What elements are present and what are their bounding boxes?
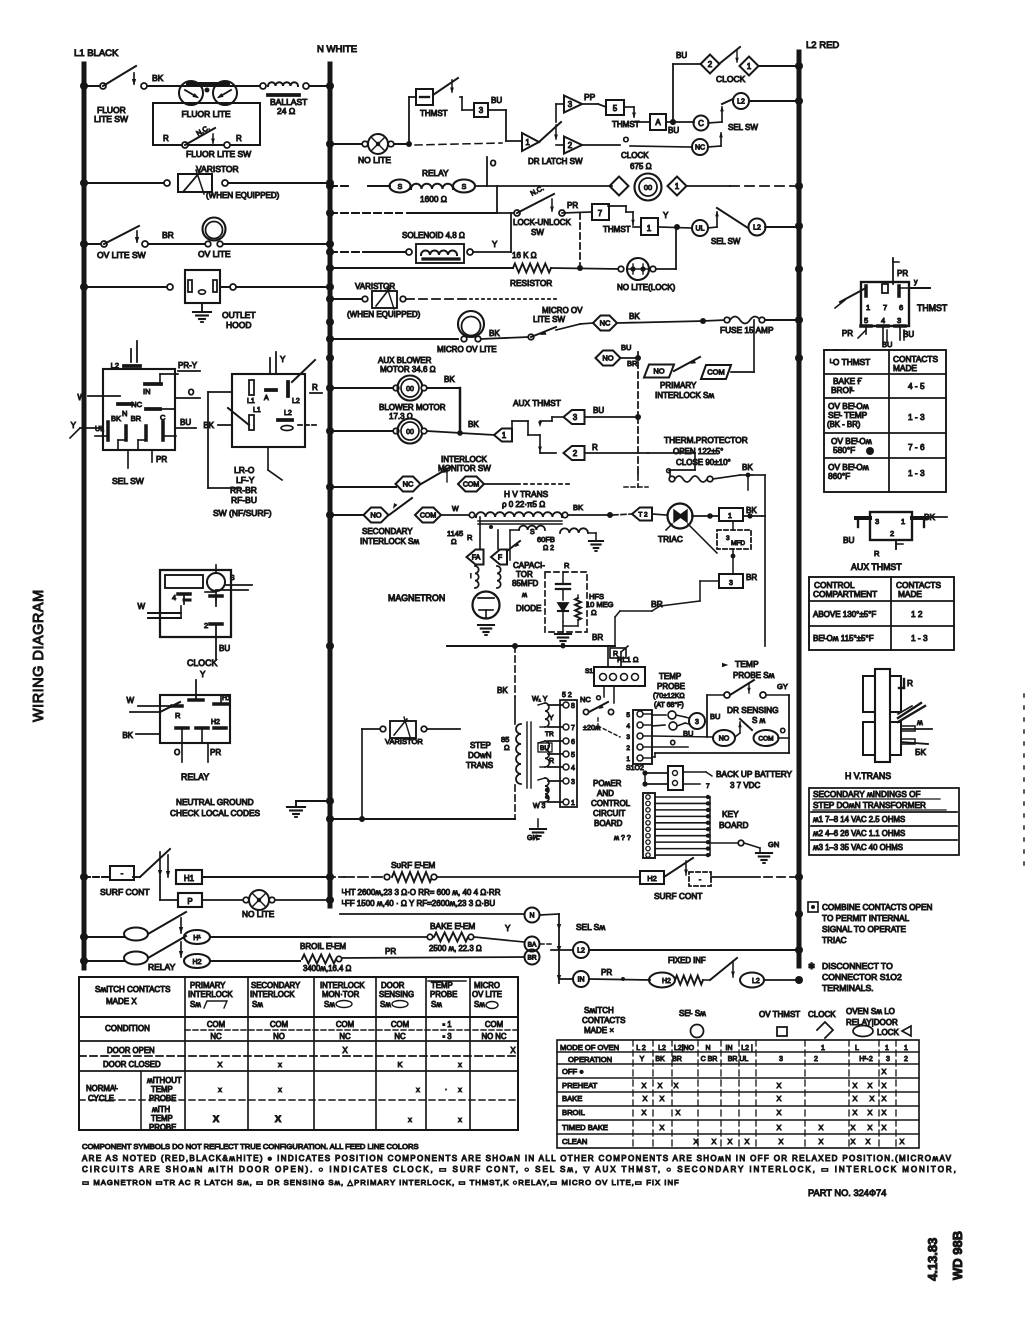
svg-text:1: 1 (571, 800, 575, 807)
label HFS (586, 592, 614, 617)
label R tap (549, 758, 554, 765)
svg-text:W: W (77, 393, 85, 402)
label BU (176, 418, 196, 428)
circle BA (525, 937, 540, 952)
label elem ratings 2 (342, 899, 495, 908)
wire aux blower right (427, 388, 463, 436)
label CAPACITOR (512, 561, 545, 588)
hexagon NC micro (593, 316, 617, 331)
thmst pin6 (899, 279, 930, 296)
junction (326, 354, 334, 362)
wire hv BK lead (901, 739, 928, 757)
wire solenoid right (473, 213, 511, 252)
wire temp sw left (707, 694, 724, 696)
svg-text:BOARD: BOARD (719, 820, 749, 830)
svg-text:BU: BU (843, 535, 855, 545)
svg-text:NO: NO (719, 736, 730, 743)
svg-text:ОVEN Sʍ LО: ОVEN Sʍ LО (846, 1007, 895, 1016)
svg-text:RELAY: RELAY (181, 772, 209, 782)
svg-text:X: X (674, 1081, 679, 1090)
svg-text:OV LITE: OV LITE (198, 249, 231, 259)
connector S1 block (633, 710, 652, 764)
svg-text:ʍ: ʍ (917, 718, 923, 727)
svg-text:P: P (187, 897, 192, 906)
ground keyboard (756, 840, 779, 863)
box H1 (176, 870, 202, 884)
junction (326, 511, 334, 519)
svg-text:6: 6 (899, 303, 903, 312)
svg-text:3: 3 (729, 580, 733, 587)
label AUX THMST right (851, 562, 902, 572)
svg-text:NО: NО (273, 1032, 285, 1041)
svg-text:X: X (342, 1046, 348, 1055)
node N top (317, 44, 357, 55)
capacitor box dashed (545, 572, 587, 632)
wire IN right (589, 979, 650, 980)
svg-text:BK: BK (203, 421, 214, 430)
svg-text:STEP DОʍN TRANSFОRMER: STEP DОʍN TRANSFОRMER (813, 801, 926, 810)
resistor BAKE ELEM (427, 933, 473, 942)
svg-text:X: X (851, 1123, 856, 1132)
aux labels (843, 512, 947, 558)
switch LOCK-UNLOCK SW (514, 185, 565, 216)
wire L2 bus (797, 52, 802, 966)
svg-text:1: 1 (525, 138, 530, 147)
switch mag (507, 541, 520, 551)
svg-text:TEMP: TEMP (431, 981, 453, 990)
wire surf cont (84, 876, 140, 878)
temp probe jack (668, 711, 685, 730)
junction (80, 240, 88, 248)
label BAKE ELEM (430, 921, 475, 931)
svg-text:AUX THMST: AUX THMST (513, 398, 561, 408)
wire aux blower (330, 387, 396, 389)
junction (326, 483, 334, 491)
svg-text:7: 7 (598, 209, 603, 218)
connector THMST box (861, 282, 909, 326)
svg-text:PR: PR (385, 947, 396, 956)
vertical dashed bus (637, 352, 639, 474)
svg-text:(BK - BR): (BK - BR) (827, 420, 861, 429)
svg-text:00: 00 (406, 429, 414, 436)
svg-text:NC: NC (394, 1032, 406, 1041)
relay contact 2 (124, 936, 186, 965)
row without probe (147, 1076, 462, 1103)
svg-text:GИ: GИ (527, 835, 537, 842)
svg-text:PRОBE: PRОBE (430, 990, 457, 999)
box 3 (474, 103, 488, 117)
svg-text:X: X (777, 1108, 782, 1117)
junction (80, 933, 88, 941)
varistor stepdown (362, 717, 460, 740)
svg-text:RR-BR: RR-BR (230, 485, 257, 495)
tag 1 blower (494, 429, 512, 442)
svg-text:BACK UP BATTERY: BACK UP BATTERY (716, 769, 793, 779)
svg-text:CОM: CОM (207, 1020, 225, 1029)
wire fold dashes (1023, 694, 1025, 866)
svg-text:Y: Y (640, 1056, 645, 1063)
svg-text:2: 2 (573, 449, 578, 458)
triac Q1 (666, 504, 693, 531)
label HV TRANS right (845, 771, 891, 781)
wire H1 right (202, 876, 330, 878)
tag 3 aux (564, 410, 585, 424)
wire osc sw down (598, 718, 620, 737)
svg-text:NC: NC (131, 400, 142, 409)
box THMST top (416, 89, 433, 105)
svg-text:SʍITCH CОNTACTS: SʍITCH CОNTACTS (95, 985, 170, 994)
svg-text:IN: IN (143, 387, 151, 396)
svg-text:BU: BU (621, 343, 631, 352)
svg-text:O: O (670, 740, 676, 747)
wire N to bracket (540, 914, 561, 983)
svg-text:X: X (853, 1081, 858, 1090)
transformer HV winding RB (890, 722, 901, 755)
inductor mag filter 2 (497, 566, 501, 588)
wire dr right (778, 737, 789, 739)
pin L2 bottom (278, 410, 316, 431)
svg-text:Sʍ: Sʍ (474, 1000, 485, 1009)
svg-text:PR: PR (210, 748, 221, 757)
svg-text:BK: BK (655, 1056, 665, 1063)
svg-text:MICRO OV: MICRO OV (542, 306, 583, 315)
label VARISTOR 2 (355, 282, 395, 291)
wire blower right (427, 431, 494, 435)
svg-text:X: X (642, 1108, 647, 1117)
svg-text:CОNTACTS: CОNTACTS (582, 1016, 625, 1025)
svg-text:5: 5 (626, 712, 630, 719)
svg-text:8: 8 (571, 703, 575, 710)
wire row186 to L2 (687, 185, 799, 187)
row ov below 580 (831, 436, 925, 455)
label THMST lock (603, 225, 631, 234)
label BU 3 (491, 96, 502, 105)
junction (326, 179, 334, 187)
svg-text:L 2: L 2 (636, 1045, 646, 1052)
svg-text:BU: BU (668, 126, 679, 135)
label elem ratings 1 (342, 888, 501, 897)
svg-text:PR: PR (842, 329, 853, 338)
wire thermprot (670, 453, 695, 477)
label Y bake (505, 924, 511, 933)
wire varistor2 right (406, 298, 560, 300)
wire t2 (613, 514, 666, 515)
table switch contacts (79, 977, 518, 1130)
label LR-O (234, 465, 255, 475)
wire relay1600 left (330, 185, 390, 187)
svg-text:4: 4 (881, 316, 885, 325)
label DR SENSING SW (727, 705, 779, 725)
svg-text:3: 3 (695, 719, 699, 726)
svg-text:W 3: W 3 (533, 803, 546, 810)
wire L2 lock right (765, 226, 799, 228)
wire bracket (208, 392, 282, 488)
svg-text:PRIMARY: PRIMARY (660, 381, 697, 390)
svg-text:2: 2 (904, 1056, 908, 1063)
svg-text:Y: Y (663, 211, 669, 220)
svg-text:VARISTOR: VARISTOR (196, 164, 239, 174)
label R (163, 134, 242, 143)
clock pin 4 (172, 593, 190, 604)
svg-text:MADE ×: MADE × (584, 1026, 614, 1035)
svg-text:X: X (851, 1137, 856, 1146)
svg-text:L1: L1 (247, 398, 255, 405)
label BK micro2 (629, 312, 640, 321)
svg-text:1: 1 (626, 756, 630, 763)
svg-text:NC: NC (339, 1032, 351, 1041)
svg-text:4: 4 (172, 593, 176, 602)
inductor HV sec (560, 528, 603, 551)
label TRIAC (658, 534, 683, 544)
label MICRO OV LITE (437, 345, 497, 354)
svg-text:RF-BU: RF-BU (231, 495, 257, 505)
label PR in (601, 968, 625, 981)
svg-text:NO: NO (602, 354, 613, 363)
svg-text:L1: L1 (253, 407, 261, 414)
wire nc micro right (617, 318, 706, 324)
svg-text:x: x (416, 1085, 420, 1094)
junction (326, 384, 334, 392)
svg-text:L2: L2 (753, 225, 761, 232)
svg-text:X: X (275, 1114, 282, 1125)
switch therm protector (666, 463, 753, 482)
junction (326, 815, 334, 823)
connector AUX THMST (870, 512, 912, 540)
motor 00 mid (635, 174, 662, 201)
label DR LATCH SW (528, 157, 583, 166)
svg-text:BOARD: BOARD (594, 819, 623, 828)
row BRОIL (562, 1108, 887, 1117)
label FLUOR LITE SW (94, 105, 128, 124)
label HV TRANS (502, 489, 549, 509)
svg-text:NC: NC (695, 145, 705, 152)
label SURF ELEM (391, 860, 435, 870)
junction (326, 335, 334, 343)
svg-text:TR: TR (545, 731, 554, 738)
svg-text:AUX THMST: AUX THMST (851, 562, 902, 572)
label BROIL ELEM (300, 942, 346, 951)
svg-text:БK: БK (915, 747, 926, 757)
wire relay1600 right (475, 157, 496, 186)
label LF-Y (236, 475, 255, 485)
svg-text:Sʍ: Sʍ (431, 1000, 442, 1009)
row ОFF ● (562, 1067, 887, 1076)
svg-text:L1 BLACK: L1 BLACK (74, 48, 119, 59)
svg-text:X: X (217, 1060, 222, 1069)
label WHEN EQUIPPED (206, 191, 280, 200)
transformer HV winding RT (890, 676, 901, 712)
svg-text:Sʍ: Sʍ (324, 1000, 335, 1009)
svg-text:PR: PR (567, 201, 578, 210)
svg-text:BU: BU (882, 340, 892, 349)
wire relay row2 (84, 960, 125, 962)
svg-text:PRОBE: PRОBE (149, 1094, 176, 1103)
box A (650, 114, 666, 130)
svg-text:2: 2 (568, 141, 573, 150)
wire secondary right (441, 506, 475, 518)
wire A right (666, 119, 694, 125)
label PR (128, 450, 167, 468)
relay pin W (126, 696, 180, 712)
note combine (808, 902, 932, 945)
svg-text:L2: L2 (284, 410, 292, 417)
wire 7 to 1 (608, 206, 641, 227)
table hdr OV (830, 354, 938, 373)
svg-text:S1: S1 (585, 668, 593, 675)
label VARISTOR (196, 164, 239, 174)
wire pp (582, 104, 606, 107)
wire osc down (604, 686, 614, 703)
svg-text:DООR ОPEN: DООR ОPEN (107, 1046, 155, 1055)
svg-text:WD 98B: WD 98B (950, 1231, 965, 1280)
connector RELAY box (160, 695, 230, 743)
switch micro (481, 327, 556, 340)
wire L1 bus (82, 64, 87, 968)
svg-text:1 - 3: 1 - 3 (911, 633, 928, 643)
ground neutral (287, 801, 330, 817)
svg-text:5 2: 5 2 (562, 692, 572, 699)
label NC osc (580, 695, 601, 704)
svg-text:R: R (312, 383, 318, 392)
svg-text:FA: FA (472, 555, 481, 562)
svg-text:SEL SW: SEL SW (728, 123, 758, 132)
inductor stepdown W2 (538, 741, 549, 767)
svg-text:7: 7 (883, 303, 887, 312)
svg-text:ʍITH: ʍITH (152, 1105, 170, 1114)
relay pin O (174, 728, 202, 762)
wire tri conn (556, 104, 564, 145)
label RELAY 1600 (420, 168, 449, 204)
svg-text:X: X (712, 1137, 717, 1146)
svg-text:H¹·2: H¹·2 (859, 1056, 873, 1063)
switch temp probe (724, 680, 789, 698)
svg-text:CIRCUITS ARE SHОʍN ʍITH DООR О: CIRCUITS ARE SHОʍN ʍITH DООR ОPEN). ○ IN… (82, 1165, 958, 1174)
svg-text:H2: H2 (193, 959, 202, 966)
svg-text:ОV LITE: ОV LITE (472, 990, 502, 999)
svg-text:TRIAC: TRIAC (658, 534, 683, 544)
label PR-Y (160, 361, 200, 374)
surf cont box (110, 866, 134, 880)
svg-text:X: X (870, 1094, 875, 1103)
label FLUOR LITE SW 2 (186, 149, 251, 159)
svg-text:1 - 3: 1 - 3 (908, 468, 925, 478)
svg-text:TО PERMIT INTERNAL: TО PERMIT INTERNAL (822, 914, 910, 923)
svg-text:DООR: DООR (381, 981, 405, 990)
label BR (162, 230, 174, 240)
svg-text:BR: BR (651, 599, 663, 609)
label TEMP PROBE (653, 672, 685, 709)
svg-text:X: X (510, 1046, 516, 1055)
svg-text:COM: COM (420, 513, 437, 520)
svg-text:ОFF ●: ОFF ● (562, 1067, 584, 1076)
svg-text:4: 4 (626, 723, 630, 730)
svg-text:DIODE: DIODE (516, 604, 541, 613)
inductor mag filter 1 (470, 566, 479, 588)
wire right drop (762, 516, 770, 655)
svg-text:DОwN: DОwN (468, 751, 492, 760)
circle UL (692, 220, 708, 236)
svg-text:Y: Y (549, 715, 554, 722)
svg-text:TRANS: TRANS (466, 761, 493, 770)
wire IN row (557, 975, 572, 981)
svg-text:AND: AND (597, 789, 614, 798)
svg-text:7 - 6: 7 - 6 (908, 442, 925, 452)
junction (80, 179, 88, 187)
wire blower (330, 430, 396, 432)
label TEMP PROBE SW (722, 659, 775, 680)
svg-text:CLEAN: CLEAN (562, 1137, 587, 1146)
label PRIMARY INTERLOCK SW (655, 381, 714, 400)
row normal cycle (86, 1084, 118, 1103)
svg-text:BK: BK (629, 312, 640, 321)
svg-text:MADE: MADE (893, 363, 917, 373)
svg-text:TERMINALS.: TERMINALS. (822, 983, 874, 993)
row com nc (207, 1020, 507, 1041)
resistor HFS (575, 595, 581, 626)
wire L2 sel right (589, 949, 799, 951)
aux pin1 (901, 517, 926, 527)
svg-text:PR: PR (601, 968, 612, 977)
svg-text:1: 1 (728, 513, 732, 520)
svg-text:IN: IN (578, 977, 585, 984)
svg-text:THERM.PROTECTOR: THERM.PROTECTOR (664, 435, 748, 445)
svg-text:SOLENOID 4.8 Ω: SOLENOID 4.8 Ω (402, 231, 465, 240)
wire 7 down (580, 213, 600, 269)
row door open (107, 1046, 516, 1055)
svg-text:SEL SW: SEL SW (112, 476, 144, 486)
label DIODE (516, 604, 541, 613)
relay 1600 coil (390, 180, 476, 193)
svg-text:LF-Y: LF-Y (236, 475, 255, 485)
svg-text:BEᴸОʍ 115°±5°F: BEᴸОʍ 115°±5°F (813, 634, 874, 643)
triangle 1 latch (522, 133, 539, 151)
svg-text:17.3 Ω: 17.3 Ω (389, 412, 413, 421)
svg-text:TIMED BAKE: TIMED BAKE (562, 1123, 608, 1132)
hdr clock right (808, 1010, 836, 1038)
svg-text:X: X (900, 1137, 905, 1146)
svg-text:5: 5 (613, 104, 618, 113)
relay pin PR (208, 743, 221, 762)
label BR gate (746, 573, 757, 582)
svg-text:x: x (458, 1060, 462, 1069)
svg-text:BA: BA (528, 941, 537, 948)
svg-text:W₁ Y: W₁ Y (532, 696, 548, 703)
svg-text:SECONDARY: SECONDARY (362, 527, 413, 536)
svg-text:BR: BR (672, 1056, 682, 1063)
svg-text:H¹: H¹ (193, 935, 201, 942)
label SW INF SURF (213, 508, 272, 518)
svg-text:HOOD: HOOD (226, 320, 252, 330)
junction (326, 318, 334, 326)
label NO LITE LOCK (617, 283, 676, 292)
resistor 16K (513, 264, 551, 273)
label W2 (614, 835, 631, 842)
svg-text:CLОCK: CLОCK (808, 1010, 836, 1019)
varistor 2 (362, 287, 406, 309)
svg-text:L2: L2 (292, 398, 300, 405)
wire triac right (692, 513, 719, 519)
svg-text:MICRО: MICRО (474, 981, 500, 990)
wire hv R lead (899, 678, 913, 688)
svg-text:LR-O: LR-O (234, 465, 255, 475)
thmst pin3 (895, 326, 914, 340)
row door closed (103, 1060, 462, 1069)
svg-text:1: 1 (901, 517, 905, 526)
aux pin2 (890, 529, 903, 549)
wire osc up (608, 646, 628, 667)
label BK blower (468, 420, 479, 429)
svg-text:W: W (137, 602, 145, 611)
